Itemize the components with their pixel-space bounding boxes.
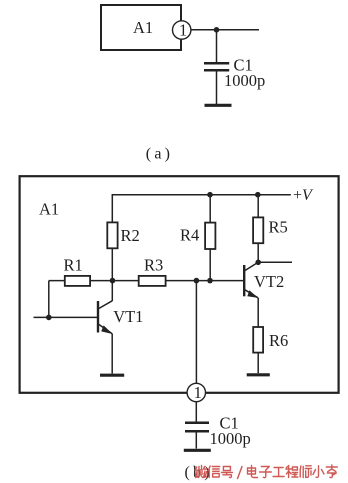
svg-text:+V: +V bbox=[293, 187, 314, 204]
svg-text:R6: R6 bbox=[269, 331, 288, 350]
svg-text:A1: A1 bbox=[39, 200, 59, 219]
svg-text:1000p: 1000p bbox=[224, 71, 265, 90]
svg-text:1000p: 1000p bbox=[210, 429, 251, 448]
svg-text:1: 1 bbox=[179, 21, 187, 40]
svg-text:R4: R4 bbox=[180, 226, 199, 245]
svg-text:(a): (a) bbox=[146, 146, 173, 163]
svg-text:A1: A1 bbox=[133, 18, 153, 37]
svg-text:R3: R3 bbox=[144, 256, 163, 275]
svg-text:VT1: VT1 bbox=[113, 307, 143, 326]
svg-text:R1: R1 bbox=[64, 256, 83, 275]
svg-text:VT2: VT2 bbox=[254, 272, 284, 291]
svg-text:R2: R2 bbox=[121, 226, 140, 245]
svg-text:1: 1 bbox=[194, 383, 202, 402]
svg-text:R5: R5 bbox=[269, 218, 288, 237]
